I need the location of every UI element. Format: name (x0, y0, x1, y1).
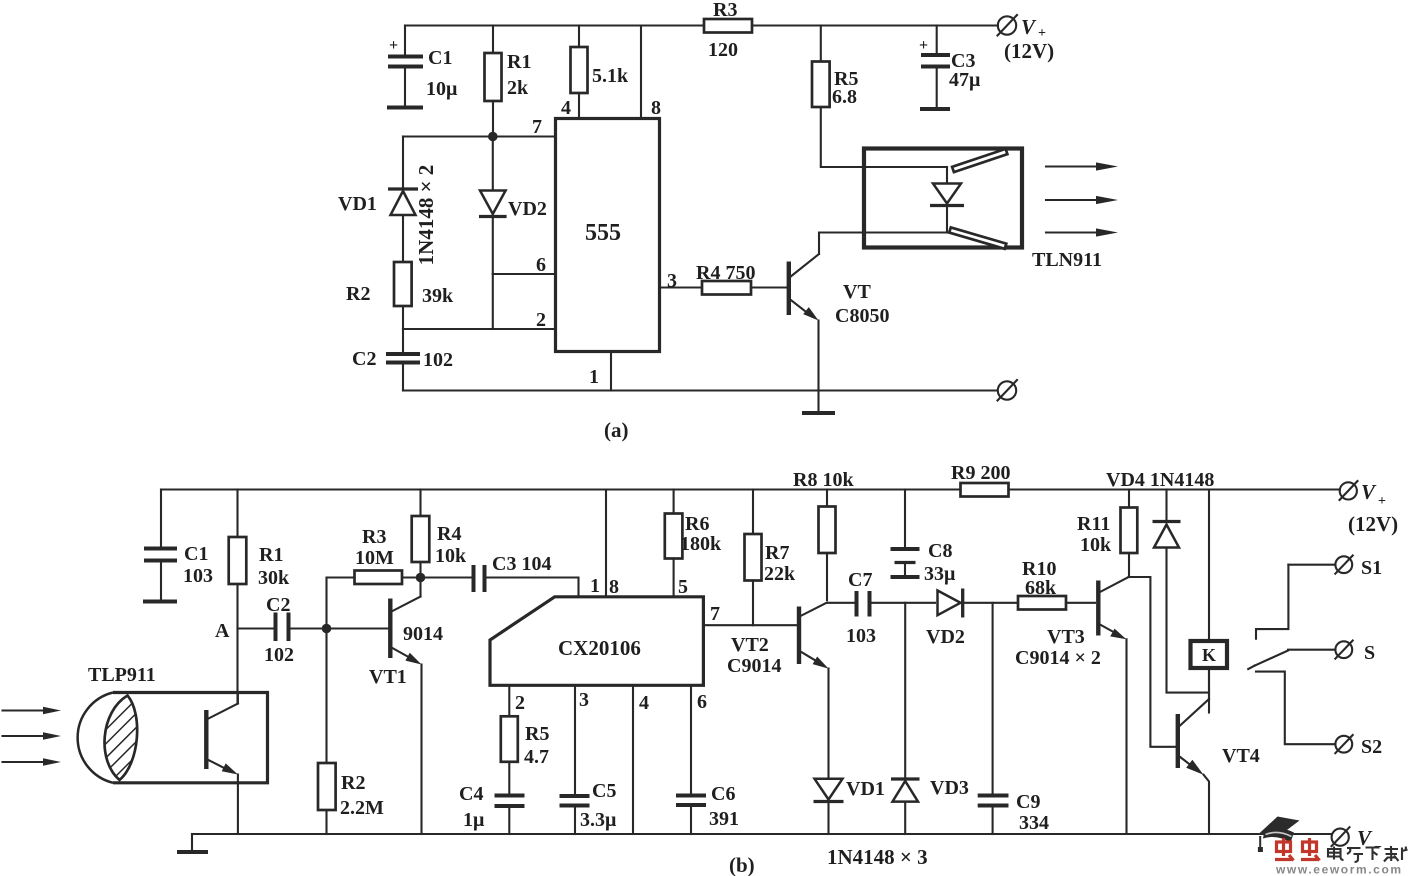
svg-text:(b): (b) (729, 853, 755, 876)
svg-text:www.eeworm.com: www.eeworm.com (1275, 863, 1403, 876)
wire pin 2 and resistor R5 4.7 (b) (501, 685, 550, 793)
svg-text:10M: 10M (355, 547, 394, 569)
resistor R5 6.8 (a) (812, 26, 947, 168)
wire bottom rail (a) (403, 389, 997, 391)
svg-text:V: V (1361, 480, 1377, 504)
svg-text:C9014 × 2: C9014 × 2 (1015, 647, 1101, 669)
resistor R9 200 (b) (951, 462, 1010, 497)
svg-text:102: 102 (423, 349, 453, 371)
wire pin 3 (a) (660, 270, 703, 292)
svg-text:33μ: 33μ (924, 563, 956, 585)
transistor VT4 (b) (1178, 668, 1260, 834)
svg-text:C3 104: C3 104 (492, 553, 551, 575)
node junction R3-R4-C3-collector (b) (416, 573, 426, 583)
svg-text:334: 334 (1019, 812, 1049, 834)
incoming arrows (b) (3, 707, 62, 766)
svg-text:6: 6 (697, 691, 707, 713)
svg-text:C8050: C8050 (835, 305, 889, 327)
resistor R3 10M (b) (355, 526, 417, 584)
terminal S and switch blade (b) (1248, 641, 1375, 670)
svg-text:VT4: VT4 (1222, 745, 1260, 767)
svg-text:C6: C6 (711, 783, 735, 805)
LED inside TLN911 (a) (930, 167, 964, 233)
svg-text:V: V (1357, 826, 1373, 850)
capacitor C1 103 (b) (143, 490, 213, 602)
svg-text:VT: VT (843, 281, 871, 303)
switch fixed contact S1 side (b) (1256, 565, 1288, 639)
resistor R1 2k (a) (485, 26, 532, 137)
capacitor C9 334 (b) (978, 791, 1049, 834)
diode VD3 (b) (891, 777, 969, 834)
diode VD2 (b) (926, 589, 1018, 649)
wire pin 8 (a) (641, 26, 661, 120)
svg-text:C2: C2 (266, 594, 290, 616)
svg-text:1N4148 × 3: 1N4148 × 3 (827, 845, 928, 869)
svg-text:K: K (1202, 645, 1216, 665)
pin 1 label (b) (590, 575, 600, 597)
resistor R1 30k (b) (229, 490, 290, 704)
watermark logo url (1275, 863, 1403, 876)
wire VD3 branch (b) (904, 603, 906, 777)
wire bottom rail (b) (192, 833, 1332, 835)
reflector strip bottom (a) (949, 227, 1006, 248)
svg-text:1N4148 × 2: 1N4148 × 2 (414, 165, 438, 266)
wire top rail left of R3 (a) (405, 24, 704, 26)
capacitor C2 102 (b) (264, 594, 322, 666)
diode VD1 (a) (338, 137, 418, 263)
watermark logo graduation cap (1258, 817, 1300, 853)
wire pin 1 (a) (589, 352, 611, 391)
svg-text:S2: S2 (1361, 736, 1382, 758)
svg-text:VD2: VD2 (926, 626, 965, 648)
resistor R10 68k (b) (1018, 558, 1095, 610)
svg-text:7: 7 (532, 116, 542, 138)
svg-text:2.2M: 2.2M (340, 797, 384, 819)
diode VD4 1N4148 (b) (1106, 469, 1214, 693)
svg-text:3.3μ: 3.3μ (580, 809, 617, 831)
terminal V- (b) (1332, 826, 1383, 855)
wire top rail left of R9 (b) (161, 488, 960, 490)
svg-text:+: + (1378, 494, 1386, 509)
svg-text:2k: 2k (507, 77, 529, 99)
label (a) (604, 418, 629, 442)
svg-text:R3: R3 (713, 0, 737, 21)
resistor R3 120 (a) (704, 0, 752, 61)
svg-text:C9014: C9014 (727, 655, 781, 677)
svg-text:9014: 9014 (403, 623, 443, 645)
emission arrows (a) (1046, 162, 1118, 236)
svg-text:47μ: 47μ (949, 69, 981, 91)
svg-text:VT3: VT3 (1047, 626, 1085, 648)
ground (b) (177, 834, 208, 852)
capacitor C4 1u (b) (459, 783, 525, 834)
svg-text:C7: C7 (848, 569, 872, 591)
svg-text:10k: 10k (435, 545, 467, 567)
wire link pins 6-2 (a) (492, 274, 494, 329)
svg-text:+: + (389, 37, 398, 54)
svg-text:2: 2 (536, 309, 546, 331)
svg-text:6: 6 (536, 254, 546, 276)
switch fixed contact S2 side and terminal S2 (b) (1256, 672, 1382, 758)
label 1N4148 x 3 (b) (827, 845, 928, 869)
svg-text:(12V): (12V) (1004, 39, 1054, 63)
svg-text:C9: C9 (1016, 791, 1040, 813)
svg-text:R6: R6 (685, 513, 709, 535)
label 1N4148 x 2 (a) (414, 165, 438, 266)
svg-text:4: 4 (561, 97, 571, 119)
svg-text:555: 555 (585, 220, 621, 246)
svg-text:39k: 39k (422, 285, 454, 307)
ground below VT (a) (802, 391, 835, 414)
svg-text:CX20106: CX20106 (558, 636, 641, 660)
watermark logo red characters (1275, 838, 1320, 861)
svg-text:4: 4 (639, 692, 649, 714)
terminal ground circle (a) (998, 380, 1018, 401)
wire pin 7 (a) (403, 116, 555, 138)
svg-text:3: 3 (667, 270, 677, 292)
svg-text:3: 3 (579, 689, 589, 711)
svg-text:V: V (1021, 15, 1037, 39)
wire C9 branch (b) (992, 603, 994, 794)
svg-text:C5: C5 (592, 780, 616, 802)
svg-text:C8: C8 (928, 540, 952, 562)
pin 4 label (a) (561, 97, 571, 119)
resistor R8 10k (b) (793, 469, 854, 600)
wire top rail right of R3 (a) (752, 24, 998, 26)
svg-text:C1: C1 (428, 47, 452, 69)
capacitor C7 103 (b) (846, 569, 935, 647)
resistor R2 39k (a) (346, 262, 454, 329)
resistor R6 180k pin5 (b) (665, 490, 722, 599)
wire pin 2 (a) (403, 309, 555, 331)
wire pin 8 (b) (606, 490, 619, 599)
capacitor C3 104 (b) (421, 553, 579, 596)
wire pin 4 (b) (633, 685, 649, 834)
svg-text:VT2: VT2 (731, 634, 769, 656)
svg-text:120: 120 (708, 39, 738, 61)
optocoupler TLN911 box (a) (864, 149, 1102, 272)
svg-text:2: 2 (515, 692, 525, 714)
terminal S1 (b) (1288, 556, 1382, 580)
svg-text:R5: R5 (525, 723, 549, 745)
capacitor C3 47u (a) (919, 26, 981, 110)
svg-text:R3: R3 (362, 526, 386, 548)
transistor VT2 C9014 (b) (727, 603, 829, 778)
svg-text:R1: R1 (259, 544, 283, 566)
svg-text:10μ: 10μ (426, 78, 458, 100)
svg-text:5: 5 (678, 576, 688, 598)
svg-text:391: 391 (709, 808, 739, 830)
resistor R11 10k (b) (1077, 490, 1137, 578)
node junction A-C2-R2-base (b) (322, 624, 332, 634)
svg-text:VD3: VD3 (930, 777, 969, 799)
svg-text:5.1k: 5.1k (592, 65, 629, 87)
svg-text:22k: 22k (764, 563, 796, 585)
svg-text:R9 200: R9 200 (951, 462, 1010, 484)
wire top rail right of R9 (b) (1009, 488, 1341, 490)
svg-text:R11: R11 (1077, 513, 1110, 535)
svg-text:C1: C1 (184, 543, 208, 565)
svg-text:180k: 180k (680, 533, 722, 555)
svg-text:68k: 68k (1025, 577, 1057, 599)
wire pin 6 and capacitor C6 391 (b) (676, 685, 739, 834)
wire junction up to R3 (b) (327, 578, 355, 632)
watermark logo chinese site name (1328, 846, 1408, 862)
svg-text:6.8: 6.8 (832, 86, 857, 108)
svg-text:R2: R2 (346, 283, 370, 305)
svg-text:103: 103 (846, 625, 876, 647)
svg-text:C4: C4 (459, 783, 483, 805)
svg-text:VD4 1N4148: VD4 1N4148 (1106, 469, 1214, 491)
wire pin 3 and capacitor C5 3.3u (b) (560, 685, 618, 834)
svg-text:7: 7 (710, 603, 720, 625)
svg-text:S1: S1 (1361, 557, 1382, 579)
resistor R2 2.2M (b) (318, 629, 384, 835)
transistor VT C8050 (a) (789, 233, 947, 391)
svg-text:TLP911: TLP911 (88, 664, 156, 686)
svg-text:R4: R4 (437, 523, 461, 545)
svg-text:VD2: VD2 (508, 198, 547, 220)
svg-text:TLN911: TLN911 (1032, 249, 1102, 271)
svg-text:+: + (919, 37, 928, 54)
terminal V+ (a) (998, 15, 1055, 63)
capacitor C8 33u (b) (891, 490, 957, 586)
svg-text:1: 1 (589, 366, 599, 388)
svg-text:(a): (a) (604, 418, 629, 442)
node junction R1/VD2/pin7 (a) (488, 132, 498, 142)
svg-text:VD1: VD1 (846, 778, 885, 800)
svg-text:R8 10k: R8 10k (793, 469, 854, 491)
resistor R4 10k (b) (412, 490, 467, 575)
svg-text:R7: R7 (765, 542, 789, 564)
terminal V+ (b) (1340, 480, 1399, 536)
svg-text:VD1: VD1 (338, 193, 377, 215)
svg-text:C2: C2 (352, 348, 376, 370)
diode VD2 (a) (479, 137, 547, 275)
label (b) (729, 853, 755, 876)
svg-text:S: S (1364, 642, 1375, 664)
svg-text:1μ: 1μ (463, 809, 485, 831)
svg-text:103: 103 (183, 565, 213, 587)
optocoupler TLP911 box (b) (88, 664, 268, 783)
wire R4 to base (a) (751, 286, 787, 288)
resistor R4 750 (a) (696, 262, 755, 295)
wire VT3 collector jog to VT4 base (b) (1129, 577, 1177, 747)
svg-text:A: A (215, 620, 230, 642)
transistor VT1 9014 (b) (331, 582, 443, 834)
capacitor C2 102 (a) (352, 329, 453, 391)
svg-text:R4 750: R4 750 (696, 262, 755, 284)
lens of TLP911 (b) (78, 693, 138, 783)
resistor R7 22k (b) (745, 490, 797, 626)
reflector strip top (a) (952, 149, 1007, 172)
svg-text:8: 8 (651, 97, 661, 119)
wire collector node to C7 (b) (827, 602, 854, 604)
transistor VT3 C9014 (b) (1015, 577, 1129, 834)
wire pin 7 (b) (703, 603, 797, 625)
relay K (b) (1191, 490, 1228, 713)
svg-text:30k: 30k (258, 567, 290, 589)
node A (b) (215, 620, 273, 642)
op-amp timer U1 555 (a) (556, 119, 660, 352)
resistor 5.1k (a) (571, 26, 630, 119)
svg-text:102: 102 (264, 644, 294, 666)
svg-text:VT1: VT1 (369, 666, 407, 688)
diode VD1 (b) (814, 778, 885, 834)
svg-text:(12V): (12V) (1348, 512, 1398, 536)
IC CX20106 (b) (490, 597, 703, 686)
svg-text:4.7: 4.7 (524, 746, 549, 768)
capacitor C1 10u (a) (387, 26, 458, 108)
wire pin 6 (a) (493, 254, 555, 276)
phototransistor inside TLP911 (b) (206, 693, 238, 835)
svg-text:1: 1 (590, 575, 600, 597)
svg-text:10k: 10k (1080, 534, 1112, 556)
svg-text:R2: R2 (341, 772, 365, 794)
svg-text:8: 8 (609, 576, 619, 598)
svg-text:R1: R1 (507, 51, 531, 73)
